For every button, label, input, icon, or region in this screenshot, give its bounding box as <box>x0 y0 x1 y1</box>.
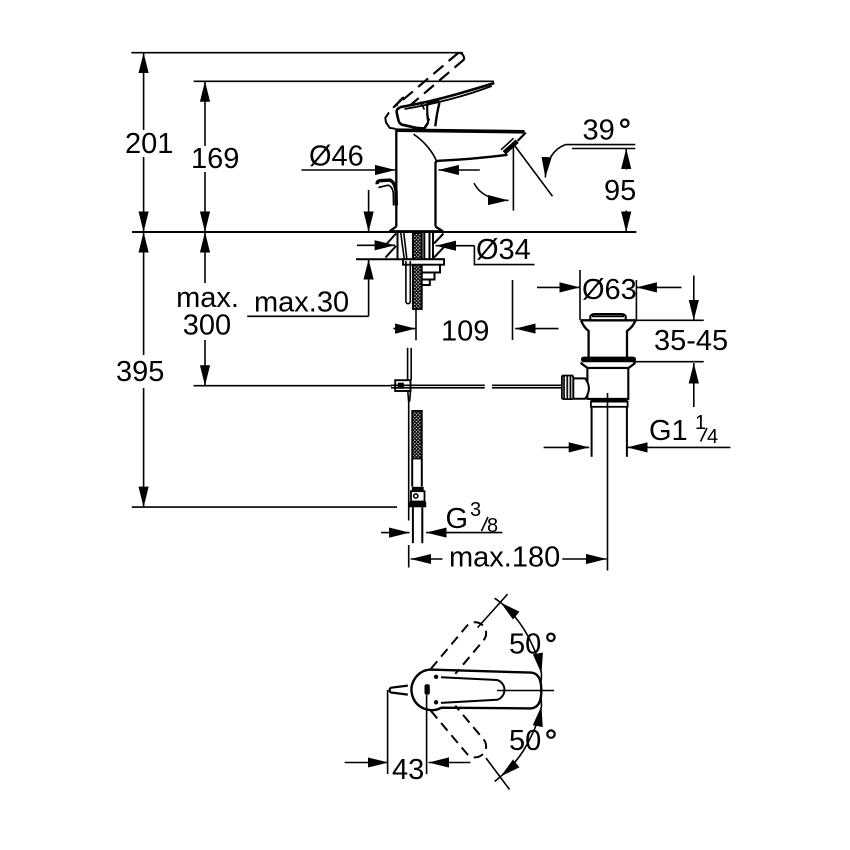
svg-text:1: 1 <box>695 412 706 434</box>
svg-text:95: 95 <box>604 175 636 207</box>
svg-text:109: 109 <box>441 316 489 348</box>
svg-text:4: 4 <box>707 426 718 448</box>
svg-text:39: 39 <box>583 114 615 146</box>
svg-text:50: 50 <box>509 725 541 757</box>
svg-text:3: 3 <box>470 499 481 521</box>
svg-text:Ø46: Ø46 <box>309 141 364 173</box>
svg-text:35-45: 35-45 <box>654 325 728 357</box>
svg-text:Ø63: Ø63 <box>582 274 637 306</box>
svg-text:8: 8 <box>487 515 498 537</box>
svg-text:G: G <box>446 503 469 535</box>
svg-text:max.30: max.30 <box>254 287 349 319</box>
svg-text:201: 201 <box>125 128 173 160</box>
svg-text:G1: G1 <box>649 415 688 447</box>
svg-text:169: 169 <box>191 143 239 175</box>
svg-text:max.180: max.180 <box>449 542 560 574</box>
svg-text:43: 43 <box>392 754 424 786</box>
svg-text:Ø34: Ø34 <box>476 234 531 266</box>
svg-text:50: 50 <box>509 628 541 660</box>
svg-text:395: 395 <box>116 356 164 388</box>
svg-text:300: 300 <box>183 310 231 342</box>
